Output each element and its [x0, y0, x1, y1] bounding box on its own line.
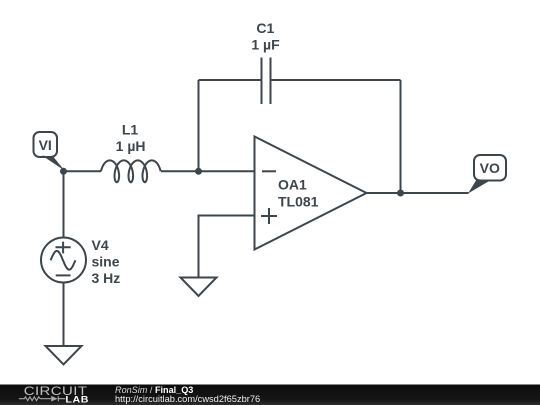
op-amp plus tick	[261, 208, 277, 224]
op-amp U1 triangle	[255, 137, 367, 250]
flag VI pointer wedge	[42, 156, 65, 171]
svg-text:OA1: OA1	[278, 177, 307, 193]
svg-text:TL081: TL081	[278, 193, 319, 209]
svg-text:1 µH: 1 µH	[116, 138, 146, 154]
svg-text:1 µF: 1 µF	[251, 37, 280, 53]
wire output	[367, 192, 469, 194]
wire feedback top left	[199, 79, 262, 81]
voltage source V4 circle	[41, 238, 86, 283]
V4 plus sign	[56, 242, 71, 254]
V4 minus sign	[56, 274, 71, 276]
wire feedback right vertical	[400, 80, 402, 193]
svg-text:C1: C1	[256, 20, 274, 36]
junction node A (inverting input)	[195, 168, 202, 175]
footer bar	[0, 385, 540, 405]
svg-text:sine: sine	[92, 254, 120, 270]
ground G2	[181, 278, 217, 297]
junction node output	[397, 190, 404, 197]
junction node VI	[60, 168, 67, 175]
capacitor C1	[262, 58, 271, 105]
svg-text:VO: VO	[480, 160, 500, 176]
ground G1	[46, 346, 82, 365]
svg-text:L1: L1	[122, 122, 139, 138]
inductor L1	[101, 160, 161, 182]
svg-text:V4: V4	[92, 237, 109, 253]
svg-text:http://circuitlab.com/cwsd2f65: http://circuitlab.com/cwsd2f65zbr76	[115, 394, 260, 404]
wire inductor to op-amp	[161, 170, 255, 172]
flag VI box	[34, 132, 58, 157]
svg-text:3 Hz: 3 Hz	[92, 270, 121, 286]
logo doodle resistor+diode	[19, 396, 66, 402]
flag VO pointer wedge	[468, 181, 490, 194]
V4 sine wave	[51, 251, 76, 270]
op-amp minus tick	[262, 170, 276, 172]
svg-text:LAB: LAB	[65, 395, 89, 405]
flag VO box	[474, 155, 506, 181]
wire feedback left vertical	[198, 80, 200, 171]
wire main input	[64, 170, 102, 172]
wire feedback top right	[271, 79, 401, 81]
wire plus input	[199, 216, 255, 278]
wire VI node down to source	[63, 171, 65, 237]
wire source to ground	[63, 283, 65, 347]
svg-text:VI: VI	[39, 137, 52, 153]
